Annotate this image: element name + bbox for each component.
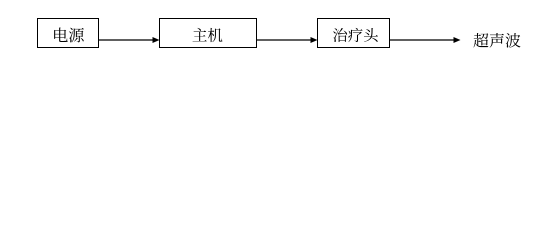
- block: treatment head box: [318, 19, 390, 48]
- output label 超声波: [473, 33, 520, 48]
- block: power supply box: [38, 19, 99, 48]
- arrowhead: [153, 37, 160, 43]
- label 电源: [54, 28, 84, 43]
- label 治疗头: [333, 28, 378, 42]
- wire: power to main unit: [99, 39, 154, 41]
- block flow diagram: 电源 -> 主机 -> 治疗头 -> 超声波: [0, 0, 535, 96]
- arrowhead: [454, 37, 461, 43]
- arrowhead: [311, 37, 318, 43]
- block: main unit box: [160, 19, 257, 48]
- wire: treatment head to output: [390, 39, 455, 41]
- wire: main unit to treatment head: [257, 39, 312, 41]
- label 主机: [193, 28, 223, 42]
